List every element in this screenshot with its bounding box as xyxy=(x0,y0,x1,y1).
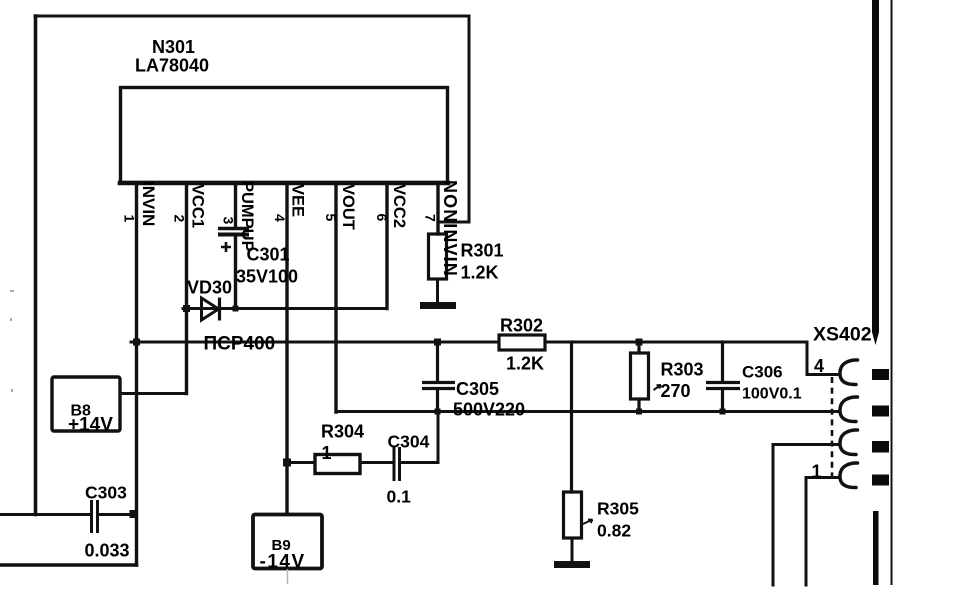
capacitor C304 xyxy=(394,447,400,481)
wire C306 leads xyxy=(721,342,724,412)
svg-text:R304: R304 xyxy=(321,422,364,442)
ground at R305 xyxy=(554,561,590,568)
wire outer right down to NONINV xyxy=(438,16,469,222)
resistor R302 xyxy=(499,335,545,350)
wire C303 row left xyxy=(0,513,90,516)
wire pin2 VCC1 vertical xyxy=(185,183,188,394)
svg-text:2: 2 xyxy=(172,215,188,223)
node junction dots xyxy=(130,305,726,518)
capacitor C306 xyxy=(706,383,740,389)
wire bottom bus xyxy=(336,410,840,413)
svg-text:4: 4 xyxy=(272,214,288,222)
svg-text:1: 1 xyxy=(812,462,822,482)
resistor R304 xyxy=(315,455,360,474)
svg-text:VOUT: VOUT xyxy=(339,184,357,230)
wire pin4 VEE vertical xyxy=(285,183,288,514)
capacitor C303 xyxy=(92,500,98,533)
svg-text:1.2K: 1.2K xyxy=(506,354,544,374)
svg-text:R305: R305 xyxy=(597,499,639,519)
wire outer left vertical xyxy=(34,16,38,515)
wire connector pin2 xyxy=(773,445,840,586)
ground at R301 xyxy=(420,302,456,309)
svg-text:1: 1 xyxy=(122,215,138,223)
wire R305 vertical xyxy=(570,342,573,492)
wire pin5 VOUT vertical xyxy=(334,183,337,412)
capacitor C301 polarized xyxy=(218,229,249,253)
node C303/pin1 xyxy=(130,510,138,518)
wire C303 row right xyxy=(99,513,137,516)
svg-text:4: 4 xyxy=(814,356,824,376)
node pin3/diode wire xyxy=(233,306,239,312)
diode VD301 xyxy=(202,298,220,321)
connector pads xyxy=(872,369,889,486)
svg-text:35V100: 35V100 xyxy=(236,267,298,287)
svg-text:0.1: 0.1 xyxy=(387,487,412,507)
wire connector pin1 xyxy=(806,478,839,586)
node diode/VCC1 xyxy=(183,305,190,312)
pin numbers rotated xyxy=(122,214,439,225)
svg-text:NONINVIN: NONINVIN xyxy=(440,180,460,277)
wire outer top xyxy=(35,15,469,18)
wire R303 leads xyxy=(637,342,640,412)
svg-text:6: 6 xyxy=(374,214,390,222)
B9 supply box xyxy=(253,515,322,569)
svg-text:C303: C303 xyxy=(85,483,127,503)
wire R305 bottom lead xyxy=(571,538,574,561)
wire B8 to VCC1 xyxy=(120,392,187,395)
pin 4 contact xyxy=(840,360,858,385)
svg-text:VEE: VEE xyxy=(289,184,307,217)
node R303 bottom xyxy=(636,409,642,415)
wire pin6 VCC2 vertical xyxy=(385,183,388,309)
svg-text:LA78040: LA78040 xyxy=(135,56,209,76)
svg-text:1.2K: 1.2K xyxy=(461,263,499,283)
pin 2 contact xyxy=(840,430,858,455)
svg-text:R302: R302 xyxy=(500,316,543,336)
svg-text:7: 7 xyxy=(423,214,439,222)
wire R304 row xyxy=(287,461,392,464)
node C306 bottom xyxy=(720,409,726,415)
svg-text:C305: C305 xyxy=(456,379,499,399)
resistor R303 xyxy=(631,353,649,399)
node R304/VEE xyxy=(283,459,291,467)
wire C305 leads xyxy=(436,342,439,412)
faint scan line below B9 xyxy=(287,569,289,584)
svg-text:N301: N301 xyxy=(152,37,195,57)
board edge thick bar bottom xyxy=(873,511,879,585)
scan speckles xyxy=(10,290,14,392)
pin 1 contact xyxy=(840,463,858,488)
board edge thick bar top xyxy=(872,0,879,345)
svg-text:+14V: +14V xyxy=(68,415,113,436)
wire diode row xyxy=(183,307,387,310)
svg-text:R301: R301 xyxy=(461,241,504,261)
svg-text:C304: C304 xyxy=(388,432,430,452)
wire pin1 INVIN vertical xyxy=(135,183,138,565)
node C305 top xyxy=(434,339,441,346)
B8 supply box xyxy=(52,377,120,431)
svg-text:C306: C306 xyxy=(742,363,783,382)
arrow mark at R305 xyxy=(583,520,593,525)
wire bottom left xyxy=(0,563,137,567)
svg-text:VCC1: VCC1 xyxy=(189,184,207,228)
capacitor C305 xyxy=(422,383,455,389)
svg-text:XS402: XS402 xyxy=(813,324,872,346)
wire pin3 below C301 xyxy=(234,236,237,309)
node C305 bottom xyxy=(435,409,441,415)
right border line xyxy=(891,0,893,585)
svg-text:500V220: 500V220 xyxy=(453,400,525,420)
svg-text:PUMPUP: PUMPUP xyxy=(238,181,256,252)
wire R301 bottom lead xyxy=(436,279,439,302)
wire pin7 NONINV vertical xyxy=(436,183,439,234)
svg-text:1: 1 xyxy=(322,443,332,463)
svg-text:5: 5 xyxy=(323,214,339,222)
svg-text:R303: R303 xyxy=(661,360,704,380)
svg-text:-14V: -14V xyxy=(260,552,306,573)
svg-text:INVIN: INVIN xyxy=(139,181,158,226)
svg-text:VCC2: VCC2 xyxy=(390,184,408,228)
svg-text:270: 270 xyxy=(661,381,691,401)
wire C304 to bus riser xyxy=(402,412,439,463)
svg-text:3: 3 xyxy=(221,217,237,225)
connector XS402 contacts xyxy=(840,360,858,488)
svg-text:VD30: VD30 xyxy=(187,278,232,298)
node R303 top xyxy=(636,339,643,346)
pin name labels rotated xyxy=(139,180,460,277)
wire pin3 PUMPUP vertical xyxy=(234,183,237,227)
wire RCP bus left xyxy=(131,341,499,344)
connector dashed line xyxy=(831,377,834,477)
node RCP/INVIN xyxy=(133,339,140,346)
resistor R301 xyxy=(429,234,447,279)
arrow mark at R303 xyxy=(654,385,662,390)
op-amp IC N301 LA78040 box xyxy=(121,88,448,183)
pin 3 contact xyxy=(840,397,858,422)
resistor R305 xyxy=(564,492,582,538)
wire RCP bus right of R302 xyxy=(545,342,840,375)
svg-text:0.033: 0.033 xyxy=(85,541,130,561)
svg-text:100V0.1: 100V0.1 xyxy=(742,386,802,403)
svg-text:ПСР400: ПСР400 xyxy=(204,334,276,355)
svg-text:0.82: 0.82 xyxy=(597,521,631,541)
